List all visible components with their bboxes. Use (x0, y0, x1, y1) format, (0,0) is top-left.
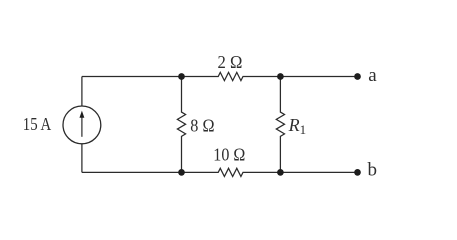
svg-text:10 Ω: 10 Ω (213, 145, 245, 165)
svg-text:R1: R1 (288, 115, 307, 137)
svg-text:a: a (368, 65, 377, 86)
svg-text:15 A: 15 A (23, 114, 51, 134)
svg-text:8 Ω: 8 Ω (190, 116, 214, 136)
svg-text:2 Ω: 2 Ω (218, 52, 243, 72)
svg-text:b: b (368, 160, 378, 181)
